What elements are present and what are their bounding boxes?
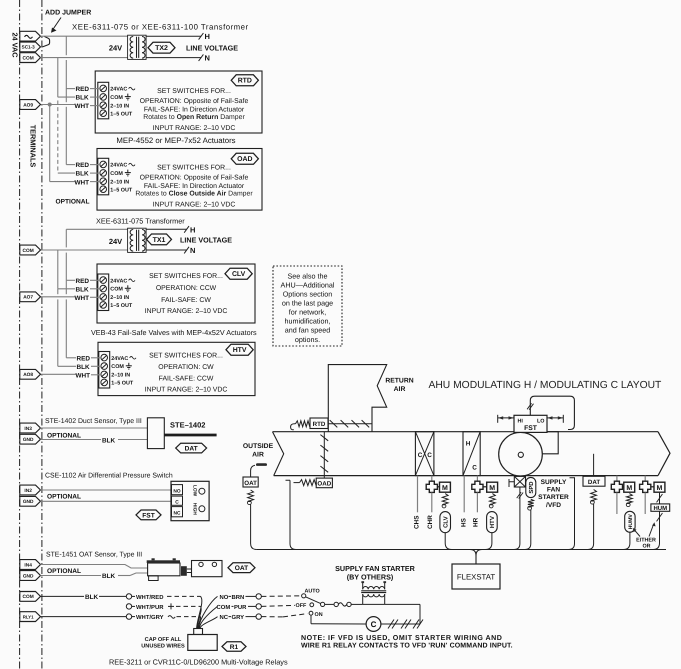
svg-text:N: N <box>190 246 195 255</box>
resistor below OAT <box>248 490 254 502</box>
svg-text:NC: NC <box>220 614 229 621</box>
svg-text:AHU—Additional: AHU—Additional <box>281 280 335 289</box>
spring and tick left of OAD <box>300 480 317 486</box>
contact circle PUR <box>256 604 261 609</box>
terminal tag GND (1) <box>20 434 41 444</box>
sensor HUM rect <box>651 504 670 511</box>
spring below M (HUMV) <box>627 494 633 504</box>
OAT sensor body <box>148 563 180 576</box>
label WHT/RED <box>132 595 135 597</box>
screw terminal CLV row 1 <box>100 277 107 284</box>
port circle HIGH <box>199 506 205 512</box>
wire OAD drop to bus <box>286 480 297 549</box>
svg-text:BRN: BRN <box>232 594 245 601</box>
OAT sensor plate hole 1 <box>199 562 203 566</box>
wire WHT feed RTD (from AO9) <box>41 104 76 106</box>
screw terminal OAD row 4 <box>100 186 107 193</box>
svg-text:OPTIONAL: OPTIONAL <box>47 494 81 501</box>
svg-text:VEB-43 Fail-Safe Valves with M: VEB-43 Fail-Safe Valves with MEP-4x52V A… <box>91 328 257 337</box>
wire TX1 24V top (hot rail corner) <box>66 228 127 230</box>
actuator box OAD outline <box>97 149 262 211</box>
label WHT/PUR and + mark <box>132 605 135 607</box>
svg-text:SC1-3: SC1-3 <box>22 45 35 50</box>
OAT sensor plate <box>192 561 223 577</box>
svg-text:1–5 OUT: 1–5 OUT <box>110 112 133 118</box>
svg-text:FLEXSTAT: FLEXSTAT <box>457 573 496 582</box>
wire BLK feed CLV <box>58 288 75 290</box>
svg-text:1–5 OUT: 1–5 OUT <box>110 188 133 194</box>
svg-text:OPERATION: CCW: OPERATION: CCW <box>156 285 217 292</box>
CHR pipe upper <box>431 476 433 482</box>
screw terminal RTD row 3 <box>100 102 107 109</box>
svg-text:COM: COM <box>111 364 124 370</box>
svg-text:COM: COM <box>110 171 123 177</box>
svg-text:TX2: TX2 <box>155 45 168 52</box>
svg-text:RED: RED <box>77 355 91 362</box>
svg-text:STE-1451 OAT Sensor, Type III: STE-1451 OAT Sensor, Type III <box>46 551 142 558</box>
tag TX1 <box>147 234 172 245</box>
wire under starter coil <box>363 603 385 605</box>
wire COM rail (CLV BLK to HTV BLK) <box>57 289 59 294</box>
OAT sensor plate hole 2 <box>212 562 216 566</box>
svg-text:COM: COM <box>217 604 231 611</box>
svg-text:OPTIONAL: OPTIONAL <box>47 568 81 575</box>
svg-text:WHT/PUR: WHT/PUR <box>136 604 164 611</box>
signal bus to FLEXSTAT <box>257 549 666 551</box>
wire HUM drop to bus <box>653 540 660 550</box>
contact circle BRN <box>256 594 261 599</box>
svg-text:STE–1402: STE–1402 <box>170 420 205 429</box>
svg-text:BLK: BLK <box>77 364 91 371</box>
svg-text:/VFD: /VFD <box>546 502 561 509</box>
wire RED feed RTD <box>66 88 75 90</box>
svg-text:C: C <box>418 452 423 459</box>
HS pipe <box>463 476 465 513</box>
terminal tag AO8 <box>20 369 41 379</box>
svg-text:TX1: TX1 <box>153 237 166 244</box>
junction dot AO9 <box>48 103 51 106</box>
damper bowtie at fan outlet <box>514 476 525 487</box>
terminal tag RLY1 <box>20 612 41 622</box>
svg-text:24V: 24V <box>109 237 122 246</box>
screw terminal RTD row 1 <box>100 85 107 92</box>
svg-text:OAT: OAT <box>244 480 257 487</box>
svg-text:H: H <box>190 225 195 234</box>
svg-text:H: H <box>205 32 210 41</box>
svg-text:BLK: BLK <box>76 95 90 102</box>
actuator box CLV outline <box>97 264 255 323</box>
svg-text:OPTIONAL: OPTIONAL <box>56 199 90 206</box>
transformer TX2 coil symbol <box>128 35 147 59</box>
wire GND to OAT sensor with BLK label <box>41 575 102 577</box>
svg-text:COM: COM <box>23 594 34 600</box>
svg-text:and fan speed: and fan speed <box>285 326 331 335</box>
left terminal strip dash-dot border line (outer) <box>19 0 21 669</box>
valve cross HTV <box>472 481 483 492</box>
svg-text:GND: GND <box>23 499 34 505</box>
switch contact OFF <box>310 603 314 607</box>
main duct top edge <box>273 431 659 433</box>
svg-text:HI: HI <box>518 418 524 424</box>
HR pipe upper <box>476 476 478 482</box>
svg-text:WHT/RED: WHT/RED <box>136 594 164 601</box>
wire ~ to TX2 primary top <box>41 35 128 37</box>
svg-text:24VAC: 24VAC <box>110 163 127 169</box>
svg-text:ON: ON <box>315 612 323 618</box>
starter interlock squiggle <box>338 603 346 606</box>
sensor DAT rect below duct <box>583 476 605 486</box>
svg-text:DAT: DAT <box>185 445 198 452</box>
terminal tag AO9 <box>20 100 41 110</box>
terminal tag GND (2) <box>20 496 41 506</box>
svg-text:AO8: AO8 <box>23 372 33 378</box>
dashes after WHT/RED <box>167 595 201 597</box>
wire WHT feed HTV (from AO8) <box>41 373 77 375</box>
outside air damper line with blades <box>323 432 325 478</box>
svg-text:OPERATION: Opposite of Fail-Sa: OPERATION: Opposite of Fail-Safe <box>140 98 249 105</box>
svg-text:for network,: for network, <box>289 308 327 317</box>
M actuator box HUMV <box>624 482 635 492</box>
sensor OAT rect below duct <box>243 477 258 487</box>
humidifier pipe 2 <box>644 476 646 482</box>
switch contact AUTO <box>302 594 306 598</box>
jumper between ~ and SC1-3 <box>43 36 50 47</box>
OAT probe dash in outside air duct <box>256 463 267 466</box>
slash below HUM box <box>659 511 661 543</box>
M actuator box CLV valve <box>440 482 451 492</box>
wire GND to switch C <box>41 500 172 502</box>
terminal tag COM (2) <box>20 245 41 255</box>
pressure switch outer box <box>171 481 209 520</box>
svg-text:FAIL-SAFE: In Direction Actuat: FAIL-SAFE: In Direction Actuator <box>144 183 245 190</box>
wire RED feed HTV <box>66 357 76 359</box>
oval SPD <box>526 477 536 497</box>
dashed note box <box>273 266 342 346</box>
wire motor to right leg <box>381 623 420 625</box>
transformer TX1 coil symbol <box>128 228 147 252</box>
svg-text:NC: NC <box>174 510 181 516</box>
humidifier pipe 1 <box>616 476 618 482</box>
svg-text:LO: LO <box>537 418 545 424</box>
svg-text:C: C <box>175 499 179 505</box>
svg-text:on the last page: on the last page <box>282 299 333 308</box>
wire TX2 secondary N <box>146 57 201 59</box>
screw terminal CLV row 3 <box>100 294 107 301</box>
OAT sensor screws on top <box>152 558 155 560</box>
svg-text:24V: 24V <box>109 43 122 52</box>
wire break on FST riser <box>527 403 531 409</box>
svg-text:LINE VOLTAGE: LINE VOLTAGE <box>186 43 238 52</box>
actuator box HTV outline <box>98 342 255 395</box>
svg-text:COM: COM <box>110 287 123 293</box>
starter control wire from pivot <box>325 603 334 605</box>
svg-text:24VAC: 24VAC <box>111 356 128 362</box>
svg-text:2–10 IN: 2–10 IN <box>111 373 130 379</box>
relay connector stem <box>194 629 203 635</box>
svg-text:WIRE R1 RELAY CONTACTS TO: WIRE R1 RELAY CONTACTS TO VFD 'RUN' COMM… <box>301 642 513 649</box>
wire AO9 rail (to OAD WHT) <box>49 105 51 182</box>
wire IN2 to switch NO <box>41 489 172 491</box>
spring below M (CLV) <box>442 494 448 505</box>
svg-text:CSE-1102 Air Differential Pres: CSE-1102 Air Differential Pressure Switc… <box>45 472 173 479</box>
wire OAT sensor to probe <box>251 465 255 477</box>
wire TX1 hot rail (CLV RED to HTV RED) <box>65 280 67 294</box>
wire TX1 secondary N <box>146 249 186 251</box>
terminal tag IN4 <box>20 560 41 570</box>
svg-text:FAIL-SAFE: CW: FAIL-SAFE: CW <box>161 297 211 304</box>
svg-text:GRY: GRY <box>232 614 245 621</box>
svg-text:COM: COM <box>23 248 34 254</box>
main duct bottom edge <box>274 475 658 477</box>
wire nut circle row3 <box>126 614 131 619</box>
OAT sensor fitting link lines <box>187 568 192 570</box>
tag FST hexagon (switch) <box>136 510 161 520</box>
svg-text:BLK: BLK <box>76 286 90 293</box>
svg-text:WHT/GRY: WHT/GRY <box>136 614 164 621</box>
svg-text:H: H <box>466 441 471 448</box>
svg-text:IN4: IN4 <box>24 562 32 568</box>
wire BLK feed HTV <box>58 365 76 367</box>
svg-text:1–5 OUT: 1–5 OUT <box>110 303 133 309</box>
wire COM rail dashed optional (to OAD BLK) <box>57 101 59 174</box>
svg-text:FAIL-SAFE: In Direction Actuat: FAIL-SAFE: In Direction Actuator <box>144 107 245 114</box>
terminal strip RTD <box>98 82 109 119</box>
svg-text:M: M <box>657 485 663 492</box>
label WHT/GRY and ~ mark <box>132 616 135 618</box>
svg-text:SET SWITCHES FOR...: SET SWITCHES FOR... <box>149 273 223 280</box>
terminal strip CLV <box>98 274 109 311</box>
wire bowtie drop to bus <box>514 487 520 550</box>
tag TX2 <box>148 42 175 53</box>
screw terminal CLV row 4 <box>100 302 107 309</box>
dashed wire GRY to ON <box>261 616 283 618</box>
svg-text:FAN: FAN <box>547 487 560 494</box>
pipe stub below HUM valve <box>644 493 646 515</box>
wire GND to sensor with BLK label <box>41 439 102 441</box>
svg-text:OAT: OAT <box>235 565 248 572</box>
tag R1 hexagon <box>222 642 246 651</box>
svg-text:HUM: HUM <box>653 505 667 512</box>
svg-text:(BY OTHERS): (BY OTHERS) <box>347 573 394 582</box>
wire hot rail (to RTD RED) <box>65 60 67 102</box>
svg-text:RED: RED <box>76 162 90 169</box>
svg-text:WHT: WHT <box>75 295 90 302</box>
svg-text:AHU MODULATING H / MODULATING: AHU MODULATING H / MODULATING C LAYOUT <box>429 380 663 391</box>
svg-text:DAT: DAT <box>588 479 600 486</box>
wire BLK feed OAD <box>58 172 75 174</box>
screw terminal HTV row 1 <box>101 354 108 361</box>
svg-text:CLV: CLV <box>442 516 449 528</box>
svg-text:HTV: HTV <box>489 516 496 528</box>
wire COM rail down (to CLV BLK) <box>57 250 59 289</box>
oval HTV <box>487 512 498 533</box>
svg-text:C: C <box>427 452 432 459</box>
tick H TX1 <box>184 226 189 233</box>
svg-text:MEP-4552 or MEP-7x52 Actuators: MEP-4552 or MEP-7x52 Actuators <box>116 136 235 145</box>
wire COM row with BLK label <box>41 595 85 597</box>
svg-text:COM: COM <box>110 95 123 101</box>
wire RED feed OAD <box>66 164 75 166</box>
screw terminal CLV row 2 <box>100 285 107 292</box>
svg-text:AO9: AO9 <box>23 102 33 108</box>
wire COM rail (to RTD BLK) <box>57 58 59 98</box>
svg-text:PUR: PUR <box>234 604 247 611</box>
svg-text:24 VAC: 24 VAC <box>11 32 20 58</box>
spring below SPD <box>528 499 534 507</box>
svg-text:COM: COM <box>23 55 34 61</box>
screw terminal HTV row 3 <box>101 371 108 378</box>
svg-text:GND: GND <box>23 437 34 443</box>
wire hot rail (to OAD RED) <box>65 107 67 165</box>
wire ON contact down to motor line <box>310 615 312 624</box>
sensor probe STE-1402 (thick) <box>164 434 216 437</box>
svg-text:IN3: IN3 <box>24 426 32 432</box>
screw terminal OAD row 1 <box>100 161 107 168</box>
wire to starter coil <box>351 603 363 605</box>
OAT sensor conduit fitting (dark) <box>181 566 187 576</box>
outside air duct zigzag edge <box>273 432 284 476</box>
svg-text:AIR: AIR <box>252 452 264 459</box>
spring and curl left of RTD <box>296 421 310 427</box>
wire starter to bus (bracket) <box>569 478 575 550</box>
oval HUMV <box>625 511 635 532</box>
wire TX1 secondary H <box>146 228 186 230</box>
svg-text:Rotates to Close Outside Air D: Rotates to Close Outside Air Damper <box>135 191 253 198</box>
svg-text:humidification,: humidification, <box>285 317 331 326</box>
OAT sensor top plate (thick) <box>147 560 180 563</box>
stub left of bowtie <box>509 479 514 487</box>
HR pipe stub below valve <box>476 493 478 513</box>
supply fan circle <box>499 432 543 476</box>
svg-text:2–10 IN: 2–10 IN <box>110 295 129 301</box>
wire WHT feed CLV (from AO7) <box>41 296 76 298</box>
svg-text:2–10 IN: 2–10 IN <box>110 179 129 185</box>
svg-text:NO: NO <box>173 488 180 494</box>
CHR pipe stub below valve <box>431 493 433 513</box>
wire hot rail (segment top) <box>65 36 67 55</box>
M actuator box HTV valve <box>487 482 498 492</box>
svg-text:24VAC: 24VAC <box>110 278 127 284</box>
svg-text:SPD: SPD <box>528 481 535 493</box>
starter interlock circle 1 <box>334 602 338 606</box>
terminal strip HTV <box>99 352 110 389</box>
svg-text:GND: GND <box>23 573 34 579</box>
slash above HUM box <box>659 493 661 504</box>
svg-text:RLY1: RLY1 <box>23 614 34 619</box>
svg-text:CAP OFF ALL: CAP OFF ALL <box>145 637 182 643</box>
terminal tag GND (3) <box>20 571 41 581</box>
terminal tag IN3 <box>20 423 41 433</box>
FST dimension left <box>497 415 499 423</box>
svg-text:CHS: CHS <box>414 515 421 529</box>
M actuator box HUM <box>654 482 665 492</box>
svg-text:M: M <box>626 485 632 492</box>
svg-text:RTD: RTD <box>238 78 252 85</box>
tick H <box>199 33 204 40</box>
svg-text:BLK: BLK <box>76 171 90 178</box>
screw terminal RTD row 4 <box>100 110 107 117</box>
terminal tag COM <box>20 53 41 63</box>
terminal tag AO7 <box>20 292 41 302</box>
tag CLV hexagon <box>225 268 252 279</box>
svg-text:1–5 OUT: 1–5 OUT <box>111 381 134 387</box>
FLEXSTAT box <box>452 564 500 589</box>
svg-text:TERMINALS: TERMINALS <box>29 125 38 168</box>
svg-text:STE-1402 Duct Sensor, Type III: STE-1402 Duct Sensor, Type III <box>45 418 142 425</box>
svg-text:STARTER: STARTER <box>538 494 569 501</box>
svg-text:SET SWITCHES FOR...: SET SWITCHES FOR... <box>157 88 231 95</box>
svg-text:BLK: BLK <box>102 573 116 580</box>
svg-text:LOW: LOW <box>192 485 198 497</box>
screw terminal HTV row 2 <box>101 363 108 370</box>
screw terminal OAD row 2 <box>100 170 107 177</box>
svg-text:XEE-6311-075 Transformer: XEE-6311-075 Transformer <box>96 216 185 225</box>
svg-text:M: M <box>489 485 495 492</box>
CHS pipe <box>417 476 419 513</box>
svg-text:SUPPLY: SUPPLY <box>541 479 567 486</box>
tag HTV hexagon <box>226 344 253 355</box>
sensor OAD rect below duct <box>316 478 332 488</box>
valve cross HUMV <box>611 481 622 492</box>
supply fan hub <box>518 452 523 457</box>
starter transformer primary leads <box>362 583 364 589</box>
supply fan scroll <box>521 432 559 454</box>
svg-text:R1: R1 <box>230 644 239 651</box>
svg-text:FST: FST <box>524 425 538 432</box>
terminal tag IN2 <box>20 485 41 495</box>
return air duct outline <box>328 365 386 432</box>
svg-text:NOTE: IF VFD IS USED, OMI: NOTE: IF VFD IS USED, OMIT STARTER WIRIN… <box>301 634 502 642</box>
svg-text:RETURN: RETURN <box>385 377 413 384</box>
svg-text:IN2: IN2 <box>24 488 32 494</box>
OAT sensor foot <box>149 576 159 581</box>
starter transformer secondary legs <box>362 594 364 604</box>
wire BLK feed RTD <box>58 96 75 98</box>
svg-text:WHT: WHT <box>75 103 90 110</box>
starter interlock circle 2 <box>347 602 351 606</box>
terminal tag SC1-3 <box>20 42 41 52</box>
main duct right arrow end <box>658 432 670 476</box>
svg-text:OPERATION: CW: OPERATION: CW <box>158 364 214 371</box>
svg-text:HIGH: HIGH <box>192 503 198 516</box>
return air damper line with blades <box>328 423 372 425</box>
svg-text:ADD JUMPER: ADD JUMPER <box>45 10 91 17</box>
svg-text:N: N <box>205 54 210 63</box>
svg-text:options.: options. <box>295 335 320 344</box>
svg-text:RTD: RTD <box>313 421 326 428</box>
port circle LOW <box>199 488 205 494</box>
svg-text:WHT: WHT <box>75 179 90 186</box>
svg-text:OAD: OAD <box>237 156 252 163</box>
screw terminal HTV row 4 <box>101 379 108 386</box>
svg-text:OR: OR <box>642 544 650 550</box>
arrow to jumper <box>53 18 62 31</box>
svg-text:REE-3211 or CVR11C-0/LD96200 M: REE-3211 or CVR11C-0/LD96200 Multi-Volta… <box>109 657 288 666</box>
heating coil box <box>463 432 480 476</box>
svg-text:OPERATION: Opposite of Fail-Sa: OPERATION: Opposite of Fail-Safe <box>140 174 249 181</box>
actuator box RTD outline <box>95 71 262 133</box>
wire CLV oval to bus <box>445 533 452 550</box>
screw terminal RTD row 2 <box>100 94 107 101</box>
wire starter right side down <box>385 603 420 605</box>
starter transformer symbol <box>363 587 385 590</box>
dashed wire PUR to OFF <box>261 605 295 606</box>
svg-text:OPTIONAL: OPTIONAL <box>47 432 81 439</box>
terminal strip OAD <box>98 158 109 195</box>
svg-text:BLK: BLK <box>85 594 99 601</box>
svg-text:Options section: Options section <box>283 290 333 299</box>
svg-text:LINE VOLTAGE: LINE VOLTAGE <box>180 235 232 244</box>
